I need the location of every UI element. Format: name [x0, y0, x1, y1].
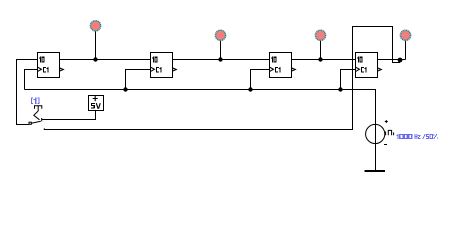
junction clock bus / FF3 C1: [248, 87, 252, 91]
wire FF1 C1 to clock bus: [25, 70, 38, 90]
wire probe X3 lead: [320, 41, 322, 60]
wire clock bus to clock source: [25, 90, 376, 171]
ground: [365, 170, 386, 172]
junction clock bus / FF2 C1: [123, 87, 127, 91]
junction FF1 Q / probe X1: [93, 57, 97, 61]
wire FF4 Q output: [378, 59, 406, 61]
wire FF3 C1 riser: [251, 70, 270, 90]
probe X4: [400, 30, 410, 40]
wire FF2 C1 riser: [126, 70, 151, 90]
switch J1 key [1]: [29, 98, 47, 130]
wire FF3 Q to FF4 D: [292, 59, 356, 61]
wire feedback FF4 Q wrap-around to switch bottom throw: [44, 27, 400, 130]
probe X3: [315, 30, 325, 40]
D flip-flop U1 pins 1D C1: [38, 53, 64, 78]
D flip-flop U3 pins 1D C1: [270, 53, 296, 78]
D flip-flop U2 pins 1D C1: [151, 53, 177, 78]
wire probe X2 lead: [220, 41, 222, 60]
wire probe X1 lead: [95, 31, 97, 60]
wire probe X4 lead: [405, 41, 407, 60]
probe X1: [90, 21, 100, 31]
junction FF4 Q / feedback wire: [398, 58, 403, 63]
battery V1 +5V: [89, 96, 104, 111]
wire FF1 Q to FF2 D: [60, 59, 151, 61]
junction FF2 Q / probe X2: [218, 57, 222, 61]
wire battery to switch top throw: [47, 111, 96, 120]
probe X2: [215, 30, 225, 40]
wire switch pole to FF1 D input: [17, 60, 38, 125]
junction FF3 Q / probe X3: [318, 57, 322, 61]
D flip-flop U4 pins 1D C1: [356, 53, 382, 78]
wire FF4 C1 riser: [341, 70, 356, 90]
junction clock bus / FF4 C1: [338, 87, 342, 91]
wire FF2 Q to FF3 D: [173, 59, 270, 61]
clock source V2: [366, 120, 439, 145]
